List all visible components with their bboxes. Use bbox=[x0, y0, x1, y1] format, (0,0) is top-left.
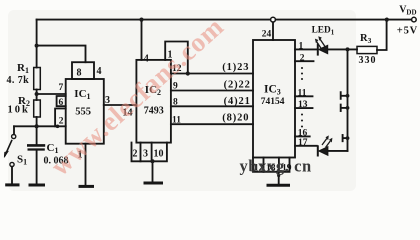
wire: LED common bus bbox=[347, 49, 349, 150]
wire: R1 to R2 bbox=[36, 90, 38, 101]
svg-text:2: 2 bbox=[300, 53, 305, 63]
wire: IC3 pin24 from rail bbox=[272, 22, 274, 40]
node: VDD terminal bbox=[412, 17, 417, 22]
LED bar pin11 bbox=[340, 92, 342, 99]
node: R1/R2/pin7 bbox=[35, 92, 39, 96]
wire: QA pin12 to IC3 pin23 bbox=[171, 73, 253, 75]
svg-text:2: 2 bbox=[133, 149, 138, 160]
wire: S1 to ground bbox=[11, 167, 13, 185]
pin bumps 2,3,10 of IC2 bbox=[132, 143, 167, 162]
svg-text:4: 4 bbox=[144, 54, 149, 65]
node: rail/IC2 pin4 bbox=[139, 18, 143, 22]
ground (C1) bbox=[30, 184, 44, 187]
node: loop/pin12 wire bbox=[186, 71, 190, 75]
wire: R3 to VDD rail bbox=[377, 20, 387, 50]
svg-text:2: 2 bbox=[59, 117, 64, 127]
wire: down to switch S1 bbox=[13, 126, 15, 134]
svg-text:1: 1 bbox=[299, 42, 304, 52]
LED bar pin16 bbox=[342, 135, 344, 141]
ellipsis dots pins 14-15 bbox=[301, 113, 303, 115]
svg-text:555: 555 bbox=[75, 107, 91, 118]
wire: pin2 stub bbox=[295, 60, 314, 62]
pin2 bump of IC1 bbox=[55, 109, 66, 127]
wire: IC3 pin1 to LED1 bbox=[295, 48, 317, 50]
svg-text:11: 11 bbox=[298, 89, 307, 99]
svg-text:330: 330 bbox=[359, 55, 377, 66]
op-amp IC1 555 box bbox=[66, 79, 104, 144]
wire: 555 pin1 to ground bbox=[85, 144, 87, 186]
svg-text:11: 11 bbox=[172, 115, 181, 125]
switch S1 bbox=[12, 134, 16, 138]
wire: 555 pin3 to 7493 pin14 bbox=[104, 104, 137, 106]
svg-text:(1)23: (1)23 bbox=[222, 62, 249, 73]
svg-text:4: 4 bbox=[97, 66, 102, 77]
wire: LED1 to R3 bbox=[328, 48, 357, 50]
svg-text:17: 17 bbox=[298, 138, 308, 148]
resistor R2 bbox=[34, 100, 41, 117]
LED bar pin13 bbox=[340, 105, 342, 111]
wire: node to 555 pin2 bbox=[14, 125, 66, 127]
wire: IC3 pin17 to LED bbox=[295, 145, 317, 147]
wire: 7493 pin1 loop to pin12 bbox=[165, 42, 188, 74]
IC2 7493 box bbox=[136, 60, 171, 143]
svg-text:10: 10 bbox=[154, 149, 164, 160]
svg-text:3: 3 bbox=[143, 149, 148, 160]
ground (S1) bbox=[7, 183, 18, 186]
resistor R1 bbox=[34, 68, 41, 90]
LED1 light arrows bbox=[315, 36, 325, 48]
svg-text:7: 7 bbox=[59, 83, 64, 93]
node: rail/R3 branch bbox=[385, 18, 389, 22]
svg-text:24: 24 bbox=[262, 30, 272, 40]
wire: QD pin11 to IC3 pin20 bbox=[171, 123, 253, 125]
scan tint bbox=[8, 10, 356, 191]
op pin8 bump of IC1 bbox=[72, 62, 94, 79]
wire: QB pin9 to IC3 pin22 bbox=[171, 90, 253, 92]
wire: bottom LED to bus bbox=[328, 150, 348, 152]
node: pin6 tie bbox=[56, 125, 60, 129]
capacitor C1 bbox=[36, 126, 38, 144]
wire: +5V top rail bbox=[37, 19, 412, 21]
node: IC3 ground wire bbox=[277, 174, 280, 177]
node: R2/C1/S1/pin2 bbox=[35, 124, 39, 128]
svg-text:10k: 10k bbox=[8, 105, 30, 116]
wire: pin13 stub bbox=[295, 107, 313, 109]
node: pin24 tap circle bbox=[271, 17, 276, 22]
node: IC2 bump/ground wire bbox=[151, 159, 155, 163]
wire: IC3 bumps to ground bbox=[278, 172, 280, 185]
wire: left vertical from rail to R1 bbox=[36, 20, 38, 68]
svg-text:(2)22: (2)22 bbox=[224, 80, 251, 91]
wire: QC pin8 to IC3 pin21 bbox=[171, 105, 253, 107]
resistor R3 bbox=[357, 46, 377, 53]
svg-text:13: 13 bbox=[298, 100, 308, 110]
ground (IC3) bbox=[268, 184, 289, 187]
wire: pin16 stub bbox=[295, 135, 310, 137]
wire: C1 to ground bbox=[36, 151, 38, 185]
wire: pin11 stub bbox=[295, 95, 313, 97]
node: LED1/bus bbox=[346, 47, 350, 51]
ellipsis dots pins 3-10 bbox=[301, 67, 303, 69]
wire: 7493 pin4 to rail bbox=[141, 20, 143, 60]
svg-text:8: 8 bbox=[173, 98, 178, 108]
LED LED1 bbox=[317, 45, 319, 55]
svg-text:8: 8 bbox=[77, 68, 82, 79]
pin bumps 12,18,19 of IC3 bbox=[253, 158, 290, 172]
svg-text:(8)20: (8)20 bbox=[222, 112, 249, 123]
svg-text:74154: 74154 bbox=[261, 97, 285, 107]
IC3 74154 box bbox=[253, 40, 295, 158]
svg-text:4. 7k: 4. 7k bbox=[7, 75, 30, 86]
pin6 bump of IC1 bbox=[57, 96, 66, 106]
svg-text:6: 6 bbox=[59, 98, 64, 108]
ground (IC1) bbox=[80, 185, 93, 188]
node: pin16 bar/bus bbox=[346, 136, 350, 140]
bottom LED light arrows bbox=[322, 135, 332, 147]
wire: branch to 555 pins 8/4 bbox=[37, 46, 86, 63]
wire: R2 down to node bbox=[36, 117, 38, 126]
LED (pin17) bbox=[317, 146, 319, 155]
ground (IC2) bbox=[145, 182, 162, 185]
node: pin11 bar/bus bbox=[346, 94, 350, 98]
node: rail/R1 branch bbox=[35, 44, 39, 48]
svg-text:ybxxg. cn: ybxxg. cn bbox=[240, 157, 312, 176]
svg-text:(4)21: (4)21 bbox=[224, 96, 251, 107]
wire: IC2 bumps to ground bbox=[152, 161, 154, 182]
wire: pin7 of 555 bbox=[37, 93, 66, 95]
svg-text:+5V: +5V bbox=[397, 26, 418, 37]
node: pin13 bar/bus bbox=[346, 106, 350, 110]
